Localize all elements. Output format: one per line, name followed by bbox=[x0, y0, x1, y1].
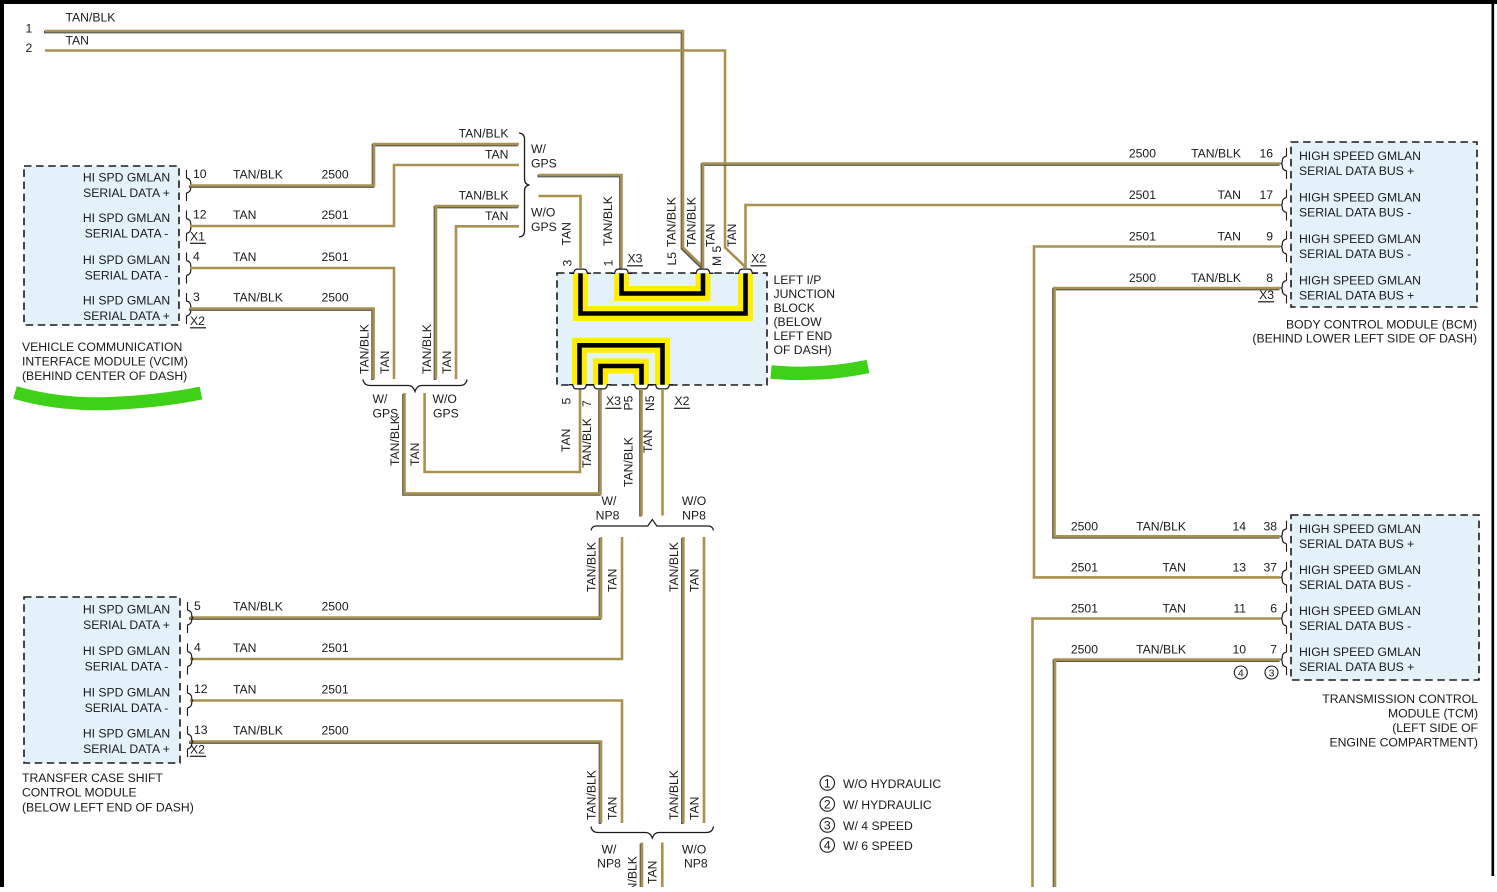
svg-text:17: 17 bbox=[1259, 188, 1273, 202]
wire BCM pin8 TAN/BLK 2500 to TCM row1 bbox=[1053, 289, 1279, 537]
svg-text:HIGH SPEED GMLAN: HIGH SPEED GMLAN bbox=[1299, 604, 1421, 618]
svg-text:HI SPD GMLAN: HI SPD GMLAN bbox=[83, 171, 170, 185]
svg-text:OF DASH): OF DASH) bbox=[774, 343, 832, 357]
svg-text:SERIAL DATA -: SERIAL DATA - bbox=[85, 660, 169, 674]
BCM pin curl 1 bbox=[1281, 156, 1286, 171]
legend item 4 bbox=[820, 838, 834, 852]
svg-text:W/: W/ bbox=[373, 392, 389, 406]
svg-text:TAN/BLK: TAN/BLK bbox=[625, 856, 639, 887]
svg-text:W/O: W/O bbox=[682, 843, 706, 857]
svg-text:X3: X3 bbox=[628, 252, 643, 266]
module TCM box bbox=[1291, 515, 1479, 680]
svg-text:TAN: TAN bbox=[485, 209, 508, 223]
bus bar TAN/BLK (inner U, terminals 1 to L5) bbox=[622, 273, 704, 294]
module VCIM box bbox=[24, 166, 179, 325]
TCM connector line bbox=[1286, 521, 1288, 675]
svg-text:(LEFT SIDE OF: (LEFT SIDE OF bbox=[1392, 721, 1478, 735]
svg-text:VEHICLE COMMUNICATION: VEHICLE COMMUNICATION bbox=[22, 340, 182, 354]
svg-text:14: 14 bbox=[1232, 519, 1246, 533]
wire VCIM pin12 TAN 2501 (W/ GPS stub) bbox=[190, 165, 519, 226]
svg-text:38: 38 bbox=[1263, 519, 1277, 533]
wire TCM row3 TAN 2501 down off page bbox=[1033, 619, 1281, 888]
Transfer case pin curl 2 bbox=[188, 652, 193, 667]
svg-text:TAN: TAN bbox=[559, 429, 573, 452]
svg-text:HIGH SPEED GMLAN: HIGH SPEED GMLAN bbox=[1299, 149, 1421, 163]
svg-text:HIGH SPEED GMLAN: HIGH SPEED GMLAN bbox=[1299, 232, 1421, 246]
svg-text:GPS: GPS bbox=[531, 220, 557, 234]
svg-text:X2: X2 bbox=[190, 314, 205, 328]
svg-text:HIGH SPEED GMLAN: HIGH SPEED GMLAN bbox=[1299, 274, 1421, 288]
svg-text:TAN/BLK: TAN/BLK bbox=[233, 291, 283, 305]
svg-text:2501: 2501 bbox=[322, 641, 349, 655]
svg-text:TAN: TAN bbox=[1163, 560, 1186, 574]
svg-text:HI SPD GMLAN: HI SPD GMLAN bbox=[83, 253, 170, 267]
svg-text:W/: W/ bbox=[602, 494, 618, 508]
svg-text:2500: 2500 bbox=[322, 724, 349, 738]
svg-text:TAN: TAN bbox=[440, 351, 454, 374]
svg-text:1: 1 bbox=[602, 260, 616, 267]
svg-text:2: 2 bbox=[824, 797, 831, 811]
junction terminal 7 (bottom) bbox=[590, 385, 611, 389]
svg-text:X2: X2 bbox=[190, 743, 205, 757]
svg-text:TAN/BLK: TAN/BLK bbox=[1136, 519, 1186, 533]
page border right bbox=[1492, 0, 1495, 876]
svg-text:SERIAL DATA BUS -: SERIAL DATA BUS - bbox=[1299, 619, 1411, 633]
VCIM pin curl 4 bbox=[187, 301, 192, 316]
svg-text:13: 13 bbox=[194, 723, 208, 737]
TCM pin curl 2 bbox=[1281, 570, 1286, 585]
svg-text:9: 9 bbox=[1266, 230, 1273, 244]
svg-text:2501: 2501 bbox=[1071, 560, 1098, 574]
svg-text:W/: W/ bbox=[602, 843, 618, 857]
svg-text:SERIAL DATA BUS +: SERIAL DATA BUS + bbox=[1299, 537, 1414, 551]
svg-text:2500: 2500 bbox=[322, 168, 349, 182]
svg-text:(BEHIND LOWER LEFT SIDE OF DAS: (BEHIND LOWER LEFT SIDE OF DASH) bbox=[1252, 332, 1477, 346]
svg-text:SERIAL DATA -: SERIAL DATA - bbox=[85, 227, 169, 241]
svg-text:TAN/BLK: TAN/BLK bbox=[622, 437, 636, 487]
svg-text:2: 2 bbox=[26, 41, 33, 55]
wire transfer case pin 13 TAN/BLK down to NP8 merge bbox=[189, 743, 600, 825]
svg-text:(BELOW LEFT END OF DASH): (BELOW LEFT END OF DASH) bbox=[22, 800, 194, 814]
svg-text:TAN: TAN bbox=[485, 148, 508, 162]
svg-text:NP8: NP8 bbox=[596, 508, 620, 522]
legend item 2 bbox=[820, 797, 834, 811]
brace NP8 split bbox=[591, 520, 714, 531]
wire 2 (TAN) from connector 2 to junction block M5 bbox=[45, 51, 745, 269]
svg-text:TAN: TAN bbox=[687, 569, 701, 592]
svg-text:W/ HYDRAULIC: W/ HYDRAULIC bbox=[843, 798, 932, 812]
Transfer case pin curl 4 bbox=[188, 734, 193, 749]
svg-text:TAN/BLK: TAN/BLK bbox=[233, 724, 283, 738]
svg-text:10: 10 bbox=[193, 167, 207, 181]
svg-text:12: 12 bbox=[194, 682, 208, 696]
svg-text:SERIAL DATA BUS +: SERIAL DATA BUS + bbox=[1299, 289, 1414, 303]
svg-text:TAN: TAN bbox=[233, 641, 256, 655]
svg-text:2501: 2501 bbox=[1129, 188, 1156, 202]
svg-text:3: 3 bbox=[561, 260, 575, 267]
wire 1 (TAN/BLK) from connector 1 to junction block L5 bbox=[44, 32, 701, 269]
svg-text:16: 16 bbox=[1259, 147, 1273, 161]
svg-text:NP8: NP8 bbox=[597, 857, 621, 871]
svg-text:GPS: GPS bbox=[531, 157, 557, 171]
brace GPS option (right curly) bbox=[519, 133, 530, 237]
wire VCIM pin10 TAN/BLK 2500 (W/ GPS stub) bbox=[189, 145, 518, 187]
junction terminal L5 (top) bbox=[693, 269, 714, 273]
wire N5 TAN down to NP8 split bbox=[661, 389, 664, 516]
svg-text:NP8: NP8 bbox=[682, 508, 706, 522]
svg-text:3: 3 bbox=[1269, 667, 1275, 679]
svg-text:2501: 2501 bbox=[322, 208, 349, 222]
VCIM pin curl 2 bbox=[187, 219, 192, 234]
svg-text:TAN/BLK: TAN/BLK bbox=[667, 770, 681, 820]
wire NP8 merge output TAN bbox=[661, 843, 664, 888]
svg-text:TAN/BLK: TAN/BLK bbox=[1191, 271, 1241, 285]
svg-text:HI SPD GMLAN: HI SPD GMLAN bbox=[83, 603, 170, 617]
svg-text:TAN/BLK: TAN/BLK bbox=[585, 770, 599, 820]
BCM pin curl 2 bbox=[1281, 198, 1286, 213]
svg-text:2501: 2501 bbox=[1071, 602, 1098, 616]
svg-text:BODY CONTROL MODULE (BCM): BODY CONTROL MODULE (BCM) bbox=[1286, 318, 1477, 332]
svg-text:W/O: W/O bbox=[682, 494, 706, 508]
junction block box bbox=[557, 273, 767, 385]
svg-text:TAN: TAN bbox=[233, 208, 256, 222]
svg-text:TAN/BLK: TAN/BLK bbox=[667, 542, 681, 592]
svg-text:13: 13 bbox=[1232, 560, 1246, 574]
svg-text:4: 4 bbox=[194, 641, 201, 655]
svg-text:TAN: TAN bbox=[233, 683, 256, 697]
wire W/O NP8 TAN through bbox=[703, 537, 706, 823]
svg-text:2500: 2500 bbox=[322, 600, 349, 614]
wire W/ NP8 TAN to transfer case pin 4 bbox=[190, 537, 622, 659]
svg-text:SERIAL DATA BUS +: SERIAL DATA BUS + bbox=[1299, 164, 1414, 178]
svg-text:X2: X2 bbox=[751, 252, 766, 266]
svg-text:SERIAL DATA -: SERIAL DATA - bbox=[85, 269, 169, 283]
svg-text:SERIAL DATA BUS -: SERIAL DATA BUS - bbox=[1299, 206, 1411, 220]
svg-text:LEFT END: LEFT END bbox=[774, 329, 833, 343]
wire NP8 merge output TAN/BLK bbox=[640, 844, 643, 889]
wire W/O GPS TAN stub bbox=[456, 226, 519, 379]
svg-text:N5: N5 bbox=[643, 395, 657, 411]
Transfer case pin curl 1 bbox=[188, 610, 193, 625]
svg-text:TAN/BLK: TAN/BLK bbox=[388, 416, 402, 466]
svg-text:TAN: TAN bbox=[605, 797, 619, 820]
junction terminal N5 (bottom) bbox=[652, 385, 673, 389]
TCM pin curl 4 bbox=[1281, 652, 1286, 667]
svg-text:NP8: NP8 bbox=[684, 857, 708, 871]
svg-text:HIGH SPEED GMLAN: HIGH SPEED GMLAN bbox=[1299, 563, 1421, 577]
page border left bbox=[0, 0, 4, 887]
svg-text:2501: 2501 bbox=[1129, 230, 1156, 244]
wire transfer case pin 12 TAN down to NP8 merge bbox=[190, 701, 622, 824]
svg-text:7: 7 bbox=[580, 400, 594, 407]
svg-text:5: 5 bbox=[194, 599, 201, 613]
svg-text:11: 11 bbox=[1233, 602, 1246, 616]
svg-text:HI SPD GMLAN: HI SPD GMLAN bbox=[83, 211, 170, 225]
svg-text:SERIAL DATA BUS -: SERIAL DATA BUS - bbox=[1299, 578, 1411, 592]
VCIM connector line X1 bbox=[186, 170, 188, 242]
svg-text:P5: P5 bbox=[622, 395, 636, 410]
svg-text:MODULE (TCM): MODULE (TCM) bbox=[1388, 707, 1478, 721]
VCIM pin curl 3 bbox=[187, 261, 192, 276]
svg-text:SERIAL DATA -: SERIAL DATA - bbox=[85, 701, 169, 715]
svg-text:LEFT I/P: LEFT I/P bbox=[774, 273, 822, 287]
wire TCM row4 TAN/BLK 2500 down off page bbox=[1054, 661, 1280, 888]
svg-text:TAN/BLK: TAN/BLK bbox=[585, 542, 599, 592]
svg-text:2501: 2501 bbox=[322, 250, 349, 264]
svg-text:SERIAL DATA +: SERIAL DATA + bbox=[83, 186, 170, 200]
svg-text:W/O HYDRAULIC: W/O HYDRAULIC bbox=[843, 777, 941, 791]
svg-text:2500: 2500 bbox=[322, 291, 349, 305]
svg-text:4: 4 bbox=[824, 838, 831, 852]
BCM connector line bbox=[1286, 148, 1288, 304]
svg-text:TAN/BLK: TAN/BLK bbox=[358, 324, 372, 374]
bus bar TAN (outer U, terminals 3 to M5) bbox=[581, 273, 746, 314]
legend item 1 bbox=[820, 776, 834, 790]
wire merge output TAN to junction terminal 5 bbox=[425, 389, 580, 472]
svg-text:SERIAL DATA +: SERIAL DATA + bbox=[83, 309, 170, 323]
svg-text:M 5: M 5 bbox=[710, 245, 724, 266]
svg-text:TAN/BLK: TAN/BLK bbox=[1191, 147, 1241, 161]
svg-text:TAN: TAN bbox=[704, 224, 718, 247]
wire W/O GPS TAN/BLK stub bbox=[435, 207, 518, 380]
svg-text:TAN: TAN bbox=[641, 430, 655, 453]
wire VCIM pin3 TAN/BLK 2500 down to GPS merge brace bbox=[189, 310, 373, 381]
wire W/O NP8 TAN/BLK through bbox=[681, 538, 684, 824]
svg-text:(BELOW: (BELOW bbox=[774, 315, 823, 329]
wire merge output TAN/BLK to junction terminal 7 bbox=[403, 390, 599, 494]
TCM option circle 3 bbox=[1265, 666, 1278, 679]
bus bar TAN/BLK (inner inverted-U, terminals 7 to P5) bbox=[601, 366, 642, 385]
wire VCIM pin4 TAN 2501 down to GPS merge brace bbox=[190, 268, 394, 379]
svg-text:TAN/BLK: TAN/BLK bbox=[685, 197, 699, 247]
svg-text:W/ 4 SPEED: W/ 4 SPEED bbox=[843, 819, 913, 833]
svg-text:TAN/BLK: TAN/BLK bbox=[459, 189, 509, 203]
svg-text:HI SPD GMLAN: HI SPD GMLAN bbox=[83, 294, 170, 308]
svg-text:3: 3 bbox=[193, 290, 200, 304]
svg-text:2501: 2501 bbox=[322, 683, 349, 697]
svg-text:TAN: TAN bbox=[646, 861, 660, 884]
VCIM pin curl 1 bbox=[187, 178, 192, 193]
wire W/ NP8 TAN/BLK to transfer case pin 5 bbox=[189, 538, 600, 619]
svg-text:X2: X2 bbox=[675, 394, 690, 408]
svg-text:2500: 2500 bbox=[1129, 271, 1156, 285]
svg-text:BLOCK: BLOCK bbox=[774, 301, 815, 315]
svg-text:HIGH SPEED GMLAN: HIGH SPEED GMLAN bbox=[1299, 191, 1421, 205]
BCM pin curl 4 bbox=[1281, 281, 1286, 296]
svg-text:W/ 6 SPEED: W/ 6 SPEED bbox=[843, 839, 913, 853]
module Transfer Case box bbox=[24, 597, 180, 763]
svg-text:TAN: TAN bbox=[605, 569, 619, 592]
svg-text:TAN: TAN bbox=[233, 250, 256, 264]
junction terminal P5 (bottom) bbox=[631, 385, 652, 389]
svg-text:1: 1 bbox=[26, 22, 33, 36]
svg-text:SERIAL DATA BUS -: SERIAL DATA BUS - bbox=[1299, 247, 1411, 261]
junction terminal 1 (top) bbox=[611, 269, 632, 273]
svg-text:TAN/BLK: TAN/BLK bbox=[66, 11, 116, 25]
svg-text:HIGH SPEED GMLAN: HIGH SPEED GMLAN bbox=[1299, 522, 1421, 536]
svg-text:L5: L5 bbox=[665, 252, 679, 266]
svg-text:4: 4 bbox=[1238, 667, 1244, 679]
svg-text:10: 10 bbox=[1232, 643, 1246, 657]
svg-text:TAN: TAN bbox=[1218, 188, 1241, 202]
svg-text:W/O: W/O bbox=[531, 206, 555, 220]
svg-text:TAN/BLK: TAN/BLK bbox=[233, 168, 283, 182]
svg-text:SERIAL DATA +: SERIAL DATA + bbox=[83, 618, 170, 632]
junction terminal 5 (bottom) bbox=[569, 385, 590, 389]
svg-text:TAN: TAN bbox=[66, 34, 89, 48]
svg-text:TAN: TAN bbox=[725, 224, 739, 247]
svg-text:ENGINE COMPARTMENT): ENGINE COMPARTMENT) bbox=[1329, 736, 1478, 750]
svg-text:TAN/BLK: TAN/BLK bbox=[459, 127, 509, 141]
module BCM box bbox=[1291, 142, 1477, 307]
svg-text:TAN: TAN bbox=[1163, 602, 1186, 616]
svg-text:TAN: TAN bbox=[1218, 230, 1241, 244]
svg-text:JUNCTION: JUNCTION bbox=[774, 287, 836, 301]
svg-text:2500: 2500 bbox=[1071, 519, 1098, 533]
wire GPS brace output TAN/BLK to junction terminal 1 bbox=[537, 176, 620, 269]
Transfer case connector line bbox=[187, 602, 189, 757]
svg-text:X3: X3 bbox=[606, 394, 621, 408]
brace GPS merge bbox=[363, 380, 467, 392]
svg-text:W/: W/ bbox=[531, 142, 547, 156]
bus bar TAN (outer inverted-U, terminals 5 to N5) bbox=[580, 345, 663, 385]
svg-text:1: 1 bbox=[824, 776, 831, 790]
svg-text:TAN/BLK: TAN/BLK bbox=[601, 196, 615, 246]
svg-text:GPS: GPS bbox=[433, 406, 459, 420]
junction terminal M5 (top) bbox=[735, 269, 756, 273]
TCM option circle 4 bbox=[1234, 666, 1247, 679]
svg-text:HI SPD GMLAN: HI SPD GMLAN bbox=[83, 644, 170, 658]
svg-text:3: 3 bbox=[824, 818, 831, 832]
TCM pin curl 1 bbox=[1281, 529, 1286, 544]
svg-text:SERIAL DATA +: SERIAL DATA + bbox=[83, 742, 170, 756]
svg-text:TAN/BLK: TAN/BLK bbox=[665, 197, 679, 247]
svg-text:TAN: TAN bbox=[408, 443, 422, 466]
svg-text:W/O: W/O bbox=[433, 392, 457, 406]
green highlighter mark under VCIM caption bbox=[15, 393, 201, 404]
page border top bbox=[0, 0, 1497, 4]
svg-text:TAN/BLK: TAN/BLK bbox=[233, 600, 283, 614]
wire GPS brace output TAN to junction terminal 3 bbox=[539, 196, 581, 268]
svg-text:(BEHIND CENTER OF DASH): (BEHIND CENTER OF DASH) bbox=[22, 369, 187, 383]
wire BCM pin9 TAN 2501 to TCM row2 bbox=[1034, 247, 1281, 578]
svg-text:X1: X1 bbox=[190, 230, 205, 244]
svg-text:5: 5 bbox=[560, 398, 574, 405]
legend item 3 bbox=[820, 818, 834, 832]
svg-text:HI SPD GMLAN: HI SPD GMLAN bbox=[83, 686, 170, 700]
Transfer case pin curl 3 bbox=[188, 693, 193, 708]
svg-text:CONTROL MODULE: CONTROL MODULE bbox=[22, 786, 137, 800]
svg-text:8: 8 bbox=[1266, 271, 1273, 285]
svg-text:INTERFACE MODULE (VCIM): INTERFACE MODULE (VCIM) bbox=[22, 355, 188, 369]
svg-text:6: 6 bbox=[1270, 602, 1277, 616]
svg-text:TAN: TAN bbox=[560, 222, 574, 245]
svg-text:4: 4 bbox=[193, 250, 200, 264]
wire BCM pin16 TAN/BLK 2500 to junction L5 bbox=[702, 165, 1279, 269]
svg-text:TAN: TAN bbox=[378, 351, 392, 374]
svg-text:HI SPD GMLAN: HI SPD GMLAN bbox=[83, 727, 170, 741]
VCIM connector line X2 bbox=[186, 253, 188, 325]
green highlighter mark beside junction block bbox=[771, 367, 868, 374]
svg-text:37: 37 bbox=[1263, 560, 1277, 574]
svg-text:12: 12 bbox=[193, 208, 207, 222]
svg-text:2500: 2500 bbox=[1129, 147, 1156, 161]
brace NP8 merge bbox=[591, 827, 714, 839]
svg-text:TRANSMISSION CONTROL: TRANSMISSION CONTROL bbox=[1322, 692, 1478, 706]
svg-text:TAN/BLK: TAN/BLK bbox=[420, 324, 434, 374]
svg-text:2500: 2500 bbox=[1071, 643, 1098, 657]
wire P5 TAN/BLK down to NP8 split bbox=[639, 390, 642, 517]
svg-text:TAN/BLK: TAN/BLK bbox=[1136, 643, 1186, 657]
svg-text:TAN/BLK: TAN/BLK bbox=[580, 418, 594, 468]
wire BCM pin17 TAN 2501 to junction M5 bbox=[746, 205, 1281, 268]
junction terminal 3 (top) bbox=[570, 269, 591, 273]
TCM pin curl 3 bbox=[1281, 611, 1286, 626]
svg-text:TRANSFER CASE SHIFT: TRANSFER CASE SHIFT bbox=[22, 771, 163, 785]
svg-text:HIGH SPEED GMLAN: HIGH SPEED GMLAN bbox=[1299, 645, 1421, 659]
svg-text:TAN: TAN bbox=[687, 797, 701, 820]
svg-text:7: 7 bbox=[1270, 643, 1277, 657]
svg-text:SERIAL DATA BUS +: SERIAL DATA BUS + bbox=[1299, 660, 1414, 674]
BCM pin curl 3 bbox=[1281, 239, 1286, 254]
